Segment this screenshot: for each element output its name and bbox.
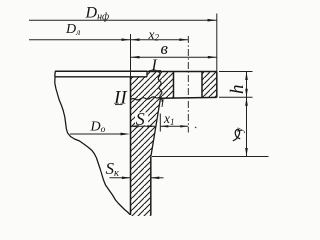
arrow S left (points left) (130, 125, 138, 127)
underline of I (149, 70, 161, 72)
extension line bottom (hub end) (152, 156, 269, 158)
dimension Sk left tail (110, 177, 131, 179)
dimension x1 line (160, 125, 188, 127)
bolt hole right edge (201, 72, 203, 98)
white patch behind S label (135, 112, 148, 125)
plate (flat head) top line (55, 70, 147, 72)
arrow ly bottom (245, 148, 248, 157)
svg-text:I: I (160, 98, 165, 109)
arrow v right (208, 56, 217, 59)
dimension line h + ly (vertical) (246, 72, 248, 157)
flange right edge (216, 72, 218, 98)
extension line at x=216.8 (flange OD) (216, 14, 218, 72)
extension line top (flange top, right side) (219, 71, 253, 73)
paper background (0, 0, 274, 218)
svg-text:S: S (136, 109, 145, 129)
bolt hole left edge (173, 72, 175, 98)
extension line mid (flange bottom, right side) (219, 96, 253, 98)
arrow Dl right (122, 38, 131, 41)
svg-text:у: у (235, 127, 246, 133)
arrow Sk left (points right at wall) (122, 177, 130, 180)
plate left end (54, 71, 57, 77)
dimension Dl line (29, 39, 131, 41)
flange body left hatched section + hub + shell wall (hatched) (131, 72, 174, 217)
extension line at x=130.5 (left) (130, 34, 132, 77)
arrow S right (points right) (147, 125, 155, 127)
flange top edge (147, 71, 217, 73)
arrow Do (121, 133, 131, 136)
arrow x2 left (131, 38, 140, 41)
arrow Sk right (points left at wall) (151, 177, 160, 180)
flange right hatched block (202, 72, 217, 98)
arrow x2 right (179, 38, 188, 41)
dimension Do line (70, 133, 127, 135)
arrow x1 right (180, 125, 188, 127)
weld seam I (wavy vertical) (158, 72, 162, 102)
plate right step (146, 71, 148, 77)
svg-text:I: I (151, 57, 158, 74)
dimension v line (131, 56, 217, 58)
shell break line (freehand curve) (55, 77, 130, 215)
svg-text:h: h (227, 85, 248, 95)
bolt hole centerline (dash-dot) (187, 36, 189, 133)
arrow h top (245, 72, 248, 81)
dimension x2 line (131, 39, 189, 41)
dimension Sk right tail (151, 177, 164, 179)
arrow ly top (245, 97, 248, 106)
hub taper right edge (151, 98, 161, 157)
underline of II (115, 104, 123, 106)
dimension S line (130, 125, 155, 127)
svg-text:II: II (113, 87, 128, 108)
arrow v left (131, 56, 140, 59)
shell wall right edge (150, 157, 152, 216)
shell/flange left edge (130, 77, 132, 215)
plate bottom line (55, 76, 147, 78)
label ly (rotated) (233, 129, 240, 140)
scan speck near x1 dimension (195, 127, 197, 129)
dimension Dnf line (29, 19, 217, 21)
extension line for x1 at hub corner (159, 114, 161, 132)
arrow Dnf right (208, 19, 217, 22)
weld seam II (wavy horizontal) (131, 97, 161, 100)
flange bottom edge (161, 96, 217, 99)
arrow x1 left (160, 125, 168, 127)
arrow h bottom (245, 89, 248, 98)
svg-text:в: в (161, 39, 169, 58)
